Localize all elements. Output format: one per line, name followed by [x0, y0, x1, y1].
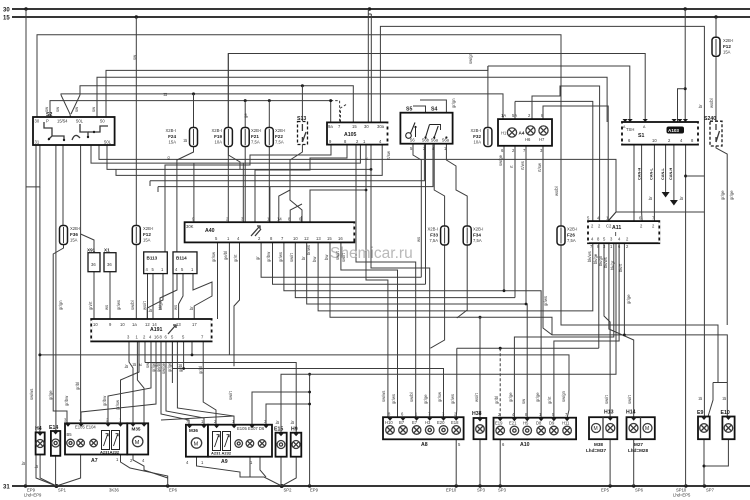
svg-text:br: br	[124, 364, 129, 368]
junction	[684, 87, 687, 90]
wire	[171, 341, 173, 383]
svg-text:A40: A40	[205, 228, 215, 234]
wire	[90, 321, 92, 341]
junction	[166, 484, 169, 487]
wire bus30 drop to A105 pair	[367, 9, 369, 122]
wire F32 feed	[487, 66, 489, 128]
wire S13 feed	[301, 86, 303, 121]
connector X91	[87, 248, 100, 272]
svg-text:X2B-I: X2B-I	[212, 128, 222, 133]
wire	[466, 228, 468, 244]
svg-text:13: 13	[176, 322, 181, 327]
svg-text:H9: H9	[291, 427, 298, 433]
wire	[543, 106, 608, 221]
wire	[144, 341, 146, 362]
A40 bottom drops	[217, 242, 219, 319]
svg-text:br: br	[290, 420, 295, 424]
svg-text:sw/rt: sw/rt	[341, 252, 346, 262]
resistor A232	[112, 431, 120, 450]
svg-text:F22: F22	[275, 134, 283, 139]
motor unit M38/H13	[586, 410, 617, 454]
wire E9 down	[703, 439, 705, 486]
wire y85.7 run to A105	[80, 86, 353, 122]
lamp	[235, 440, 243, 448]
junction	[280, 484, 284, 488]
wire	[91, 440, 96, 445]
wire CAN-H to splice	[673, 145, 675, 200]
wire	[658, 223, 660, 243]
wire	[260, 457, 266, 477]
svg-text:C2: C2	[606, 224, 612, 229]
control unit A105	[327, 122, 388, 144]
wire A7 bottom to EP6	[121, 455, 168, 487]
junction	[632, 484, 635, 487]
wire	[71, 95, 80, 114]
svg-text:gr/ge: gr/ge	[508, 392, 513, 402]
svg-text:ws: ws	[173, 305, 178, 310]
svg-text:EP5: EP5	[601, 488, 610, 493]
wire	[279, 190, 290, 222]
svg-text:3: 3	[264, 419, 267, 424]
svg-text:X1: X1	[104, 248, 110, 253]
svg-text:H10: H10	[385, 420, 393, 425]
wire E14 drop	[55, 145, 57, 431]
wire	[420, 100, 446, 113]
svg-text:13: 13	[316, 236, 321, 241]
svg-text:sw/gn: sw/gn	[561, 390, 566, 402]
fuse F26	[557, 226, 577, 245]
junction on bus 30	[24, 7, 27, 10]
svg-text:F24: F24	[168, 134, 176, 139]
svg-text:B114: B114	[176, 256, 187, 261]
switch S13	[297, 116, 308, 145]
fuse F33	[428, 226, 449, 245]
lamp cluster A10	[494, 412, 577, 448]
wire	[259, 441, 264, 446]
svg-text:bl: bl	[163, 93, 168, 96]
svg-text:4: 4	[142, 458, 145, 463]
svg-text:P: P	[46, 119, 49, 124]
wire	[387, 124, 389, 144]
wire	[137, 341, 144, 423]
junction on bus 15	[135, 15, 138, 18]
svg-text:EP6: EP6	[169, 488, 178, 493]
svg-text:ws/bl: ws/bl	[554, 186, 559, 196]
svg-text:1A: 1A	[501, 113, 506, 118]
wire	[640, 417, 642, 439]
wire A105 pin7 dashed stub	[341, 104, 348, 122]
wire E10 feed	[543, 311, 727, 383]
svg-text:A191: A191	[150, 327, 163, 333]
svg-text:56a: 56a	[442, 138, 450, 143]
svg-text:gr/ws: gr/ws	[278, 252, 283, 262]
svg-text:SP7: SP7	[706, 488, 715, 493]
svg-text:D9: D9	[549, 421, 555, 426]
wire	[255, 145, 347, 222]
wire	[193, 129, 195, 145]
svg-text:sw/rt: sw/rt	[604, 394, 609, 404]
wire	[247, 441, 252, 446]
svg-text:X2B-I: X2B-I	[471, 128, 481, 133]
svg-text:F12: F12	[723, 44, 731, 49]
svg-text:H1: H1	[501, 131, 507, 136]
svg-text:M: M	[645, 426, 649, 432]
indicator unit A4	[498, 113, 552, 153]
unit A7	[64, 418, 127, 463]
svg-text:ge: ge	[243, 113, 248, 118]
svg-text:30K: 30K	[186, 224, 194, 229]
wire	[353, 224, 355, 242]
svg-text:A9: A9	[221, 459, 228, 465]
svg-text:ws: ws	[104, 305, 109, 310]
svg-text:16: 16	[338, 236, 343, 241]
svg-text:gr/ge: gr/ge	[167, 362, 172, 372]
svg-text:ws/rt: ws/rt	[474, 392, 479, 402]
wire	[331, 101, 340, 122]
mesh h10 H10	[203, 341, 216, 424]
wire	[715, 137, 717, 142]
mesh h9 B7	[191, 341, 193, 355]
junction	[54, 484, 58, 488]
junction	[192, 92, 195, 95]
svg-text:M: M	[594, 426, 598, 432]
mesh h6 E20	[172, 341, 443, 417]
wire	[630, 425, 636, 431]
svg-text:H38: H38	[472, 411, 482, 417]
junction	[499, 347, 502, 350]
wire	[269, 187, 271, 223]
wire	[434, 144, 444, 226]
wire H38 riser	[479, 317, 481, 418]
wire	[701, 425, 707, 431]
fuse F21	[241, 128, 261, 147]
wire y77.3 stair to S1	[97, 77, 607, 122]
wire	[370, 14, 372, 122]
svg-text:gr/bl: gr/bl	[75, 382, 80, 390]
svg-text:ge/bl: ge/bl	[223, 251, 228, 260]
wire A4 pin feeds	[514, 101, 516, 119]
wire	[247, 441, 252, 446]
svg-text:30: 30	[3, 8, 10, 14]
svg-text:M27: M27	[634, 442, 643, 447]
svg-text:B113: B113	[147, 256, 158, 261]
wire	[301, 124, 303, 131]
wire A9 pin risers	[252, 392, 310, 425]
wire	[81, 234, 94, 253]
wire A11 to A10 D9	[554, 243, 619, 418]
svg-text:12: 12	[304, 236, 309, 241]
svg-text:50L: 50L	[104, 140, 112, 145]
wire	[602, 417, 604, 439]
svg-text:F12: F12	[143, 232, 151, 237]
wire	[725, 425, 731, 431]
fuse F12 (mid)	[132, 226, 153, 245]
svg-text:5: 5	[552, 412, 555, 417]
svg-text:5: 5	[458, 442, 461, 447]
svg-text:X2B-I: X2B-I	[723, 38, 733, 43]
svg-text:E7: E7	[412, 420, 418, 425]
svg-text:4: 4	[79, 418, 82, 423]
wire	[193, 274, 212, 319]
svg-text:10: 10	[652, 138, 657, 143]
svg-text:ws: ws	[416, 237, 421, 242]
svg-text:gn/rt: gn/rt	[88, 301, 93, 310]
svg-text:bl: bl	[132, 363, 137, 366]
switch S240	[704, 116, 722, 146]
lamps	[386, 426, 461, 435]
twisted pair splice	[670, 200, 678, 206]
wire	[444, 228, 446, 244]
svg-text:sw/bl: sw/bl	[409, 392, 414, 402]
svg-text:Lhd=EP5: Lhd=EP5	[673, 493, 691, 498]
wire	[12, 16, 750, 18]
junction	[424, 136, 426, 138]
svg-text:bk/ws: bk/ws	[603, 257, 608, 268]
wire A9 risers	[161, 416, 234, 420]
svg-text:gr/ws: gr/ws	[543, 296, 548, 306]
svg-text:B7: B7	[399, 420, 405, 425]
svg-text:3K36: 3K36	[109, 488, 119, 493]
wire	[411, 123, 416, 134]
svg-text:sw/ge: sw/ge	[161, 362, 166, 374]
wire dashed drop to A10	[499, 348, 501, 418]
wire A4 pins down	[503, 146, 505, 291]
svg-text:30: 30	[364, 124, 369, 129]
svg-text:3: 3	[442, 412, 445, 417]
svg-text:E9: E9	[697, 410, 703, 416]
junction	[414, 126, 416, 128]
svg-text:7,5A: 7,5A	[275, 140, 284, 145]
wire y186.6 run	[158, 145, 433, 187]
svg-text:br: br	[34, 464, 39, 468]
svg-text:gr/bl: gr/bl	[494, 396, 499, 404]
svg-text:CAN-H: CAN-H	[637, 168, 641, 180]
junction	[63, 139, 65, 141]
svg-text:14: 14	[152, 322, 157, 327]
svg-text:gr/rt: gr/rt	[233, 254, 238, 262]
lamp E105	[67, 439, 75, 447]
wire F24 feed	[193, 94, 195, 128]
wire F36 drop	[62, 145, 64, 225]
svg-text:H5: H5	[523, 421, 529, 426]
wire	[716, 131, 720, 142]
svg-text:1: 1	[119, 418, 122, 423]
svg-text:9a: 9a	[328, 124, 333, 129]
wire CAN br down	[653, 145, 655, 221]
svg-text:2: 2	[214, 419, 217, 424]
svg-text:gr/bl: gr/bl	[178, 364, 183, 372]
junction	[445, 136, 447, 138]
svg-text:gr/bl: gr/bl	[198, 366, 203, 374]
wire CAN-L to splice	[665, 145, 667, 192]
junction	[308, 403, 311, 406]
svg-text:Lhd=M28: Lhd=M28	[628, 448, 648, 453]
wire bus30 drop to S1	[684, 9, 686, 122]
svg-text:A105: A105	[344, 132, 357, 138]
wire funnel into S2	[61, 95, 71, 117]
svg-text:1: 1	[250, 460, 253, 465]
wire	[341, 242, 398, 417]
lamp cluster A8	[383, 412, 464, 449]
wire E15 riser	[281, 243, 616, 433]
svg-text:X91: X91	[87, 248, 96, 253]
svg-text:F33: F33	[430, 233, 438, 238]
svg-text:M36: M36	[189, 428, 198, 433]
svg-text:sw/rt: sw/rt	[228, 390, 233, 400]
svg-text:15: 15	[352, 124, 357, 129]
svg-text:gr/bw: gr/bw	[102, 395, 107, 406]
wire	[234, 242, 240, 366]
motor unit M27/H14	[626, 410, 655, 454]
svg-text:sw/ws: sw/ws	[29, 389, 34, 400]
svg-text:7: 7	[428, 412, 431, 417]
svg-text:7,5A: 7,5A	[473, 238, 482, 243]
wire F22 down	[268, 146, 270, 222]
wire bus15 drop to F12	[135, 17, 137, 319]
wire	[726, 383, 728, 417]
wire	[244, 129, 246, 145]
wire	[560, 228, 562, 244]
svg-text:8: 8	[388, 412, 391, 417]
wire	[255, 229, 261, 236]
wire	[81, 341, 156, 423]
wire	[725, 425, 731, 431]
wire	[598, 243, 600, 348]
wire y93.9 run to A4	[61, 94, 503, 119]
svg-text:ws/bl: ws/bl	[709, 98, 714, 108]
svg-text:31: 31	[35, 140, 40, 145]
svg-text:31: 31	[3, 485, 10, 491]
wire H38 down	[479, 439, 481, 486]
resistor A231	[213, 432, 221, 451]
wire y53.5 run	[228, 54, 645, 223]
wire F34 down	[457, 245, 467, 318]
svg-text:bl: bl	[698, 397, 703, 400]
wire F33 down	[430, 245, 444, 348]
junction	[608, 484, 611, 487]
svg-text:ws/rt: ws/rt	[142, 300, 147, 310]
wire	[509, 129, 515, 135]
svg-text:gr/gn: gr/gn	[451, 98, 456, 108]
wire	[157, 187, 159, 192]
svg-text:F34: F34	[473, 233, 481, 238]
svg-text:A4: A4	[519, 131, 525, 136]
svg-text:3: 3	[603, 244, 606, 249]
junction	[703, 484, 706, 487]
wire	[607, 425, 613, 431]
svg-text:15A: 15A	[143, 238, 151, 243]
svg-text:10: 10	[293, 236, 298, 241]
junction	[479, 316, 482, 319]
svg-text:br: br	[679, 196, 684, 200]
wire	[426, 125, 430, 138]
wire A40 top risers	[193, 163, 195, 222]
wire X1 drop	[109, 272, 111, 319]
junction	[38, 353, 41, 356]
wire	[477, 426, 483, 432]
svg-text:gr/ge: gr/ge	[423, 394, 428, 404]
wire E9/E10 bracket	[713, 382, 727, 384]
svg-text:CAN-H: CAN-H	[669, 168, 673, 180]
svg-text:H13: H13	[604, 410, 614, 416]
svg-text:14: 14	[277, 217, 282, 222]
svg-text:bl: bl	[722, 397, 727, 400]
wire y100.6 run	[50, 101, 331, 122]
svg-text:H11: H11	[562, 421, 570, 426]
svg-text:E10: E10	[721, 410, 730, 416]
svg-text:56a: 56a	[431, 138, 439, 143]
svg-text:X2B-I: X2B-I	[428, 227, 438, 232]
wire	[307, 242, 528, 417]
junction	[308, 484, 311, 487]
wire	[607, 425, 613, 431]
fuse F32	[471, 128, 492, 147]
svg-text:D8: D8	[536, 421, 542, 426]
svg-text:sw/rt: sw/rt	[289, 252, 294, 262]
svg-text:gr/ge: gr/ge	[720, 190, 725, 200]
svg-text:E105 E104: E105 E104	[75, 425, 96, 430]
wire A10 pin6 down	[499, 439, 501, 486]
svg-text:br: br	[275, 420, 280, 424]
wire	[330, 242, 552, 335]
svg-text:15A: 15A	[723, 50, 731, 55]
wire	[37, 441, 43, 447]
svg-text:br: br	[301, 256, 306, 260]
wire	[147, 274, 163, 319]
motor M35	[127, 423, 148, 463]
wire B114 drops	[160, 274, 177, 310]
wire F19 feed from y53.5	[227, 54, 229, 129]
wire	[293, 442, 299, 448]
svg-text:br: br	[21, 461, 26, 465]
svg-text:sw/rt: sw/rt	[627, 394, 632, 404]
wire	[63, 227, 65, 243]
lamp	[77, 439, 85, 447]
wire	[135, 227, 137, 243]
svg-text:B5: B5	[67, 432, 73, 437]
svg-text:gr/ws: gr/ws	[450, 394, 455, 404]
svg-text:X2B-I: X2B-I	[275, 128, 285, 133]
fuse F36	[60, 226, 81, 245]
svg-text:4: 4	[186, 460, 189, 465]
wire	[525, 146, 527, 304]
svg-text:1: 1	[415, 412, 418, 417]
wire y159.4 run	[99, 145, 616, 221]
mesh h2	[40, 355, 569, 418]
wire	[12, 8, 750, 10]
wire bus15 drop through F12	[715, 17, 717, 121]
wire	[623, 243, 625, 335]
wire y175.4 run	[116, 145, 382, 176]
lamp H38	[472, 411, 486, 439]
junction	[48, 138, 50, 140]
svg-text:gr/gn: gr/gn	[58, 300, 63, 310]
svg-text:F26: F26	[567, 233, 575, 238]
resistor A232	[223, 432, 231, 451]
wire	[715, 39, 717, 55]
svg-text:50L: 50L	[76, 119, 84, 124]
wire F21 feed	[244, 101, 246, 128]
wire S1 to ground rail	[685, 145, 687, 486]
svg-text:gr/bw: gr/bw	[64, 395, 69, 406]
wire A8 pin6 riser	[455, 348, 458, 417]
wire	[259, 441, 264, 446]
svg-text:gr/ge: gr/ge	[626, 294, 631, 304]
svg-text:bk/gr: bk/gr	[610, 260, 615, 270]
wire	[540, 127, 546, 133]
svg-text:E19: E19	[495, 421, 503, 426]
svg-text:rt/ws: rt/ws	[520, 161, 525, 170]
